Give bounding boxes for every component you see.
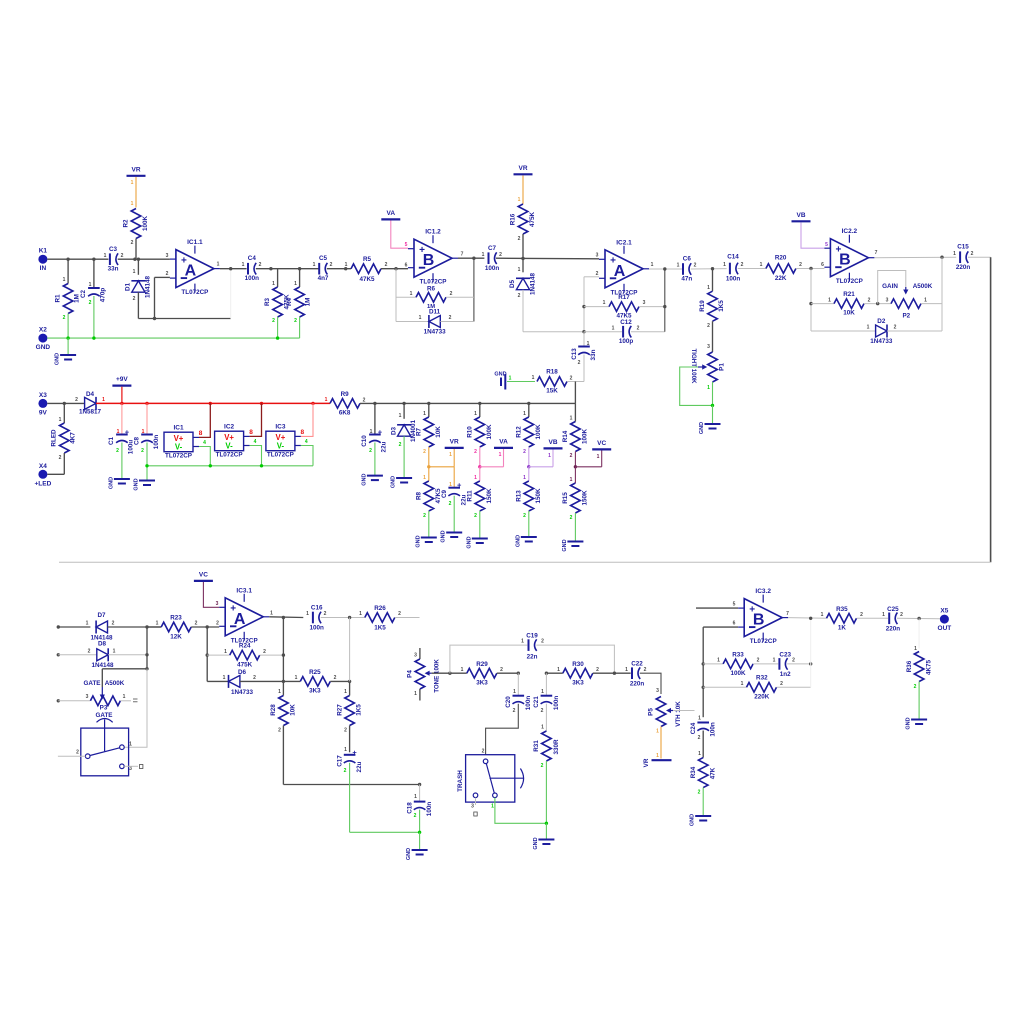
svg-text:1M: 1M: [305, 298, 312, 307]
svg-text:8: 8: [199, 430, 203, 437]
svg-text:1: 1: [474, 475, 477, 481]
svg-text:2: 2: [450, 291, 453, 297]
power block IC2: [215, 424, 257, 459]
svg-text:TONE 100K: TONE 100K: [434, 659, 441, 693]
wire rail to R18 corner: [574, 382, 576, 404]
capacitor C25 220n: [882, 606, 903, 633]
svg-text:1: 1: [491, 804, 494, 810]
svg-text:1: 1: [86, 621, 89, 627]
svg-text:2: 2: [780, 681, 783, 687]
node IC1 V+ drop: [209, 402, 212, 405]
svg-text:6: 6: [405, 263, 408, 269]
svg-text:C22: C22: [631, 661, 643, 668]
resistor R19 1K5: [699, 269, 725, 352]
wire P5 to VR: [660, 727, 662, 759]
svg-text:C18: C18: [407, 802, 414, 814]
svg-text:1K5: 1K5: [718, 300, 725, 312]
svg-text:1: 1: [513, 689, 516, 695]
resistor R17 47K5: [584, 294, 665, 320]
capacitor C12 100p: [584, 319, 665, 345]
svg-text:TL072CP: TL072CP: [216, 452, 243, 459]
svg-text:2: 2: [423, 449, 426, 455]
svg-text:100p: 100p: [619, 338, 634, 345]
wire C3 to opamp: [118, 258, 170, 260]
svg-text:C1: C1: [108, 436, 115, 445]
resistor R36 4K75: [906, 652, 933, 720]
svg-text:2: 2: [698, 790, 701, 796]
vertical C16 to R25: [349, 618, 351, 682]
svg-text:R34: R34: [690, 766, 697, 778]
svg-text:1: 1: [102, 397, 105, 403]
svg-text:220n: 220n: [886, 626, 901, 633]
node out IC2:1: [663, 267, 666, 270]
resistor R4 1M: [286, 269, 312, 338]
svg-text:GND: GND: [361, 473, 367, 485]
power block IC3: [266, 424, 308, 459]
svg-text:2: 2: [644, 667, 647, 673]
resistor R1: [55, 259, 81, 338]
svg-text:5: 5: [825, 242, 828, 248]
resistor R35 1K: [821, 606, 864, 632]
svg-text:V-: V-: [225, 442, 233, 451]
supply VR top-left: [127, 166, 146, 176]
wire IC2:2 out: [874, 256, 956, 259]
svg-text:1: 1: [131, 201, 134, 207]
svg-text:C3: C3: [109, 246, 118, 253]
node gnd R1: [66, 336, 69, 339]
op-amp IC1:1: [166, 239, 220, 296]
svg-text:3: 3: [643, 300, 646, 306]
svg-text:2: 2: [541, 639, 544, 645]
svg-text:2: 2: [894, 325, 897, 331]
svg-text:R15: R15: [562, 492, 569, 504]
svg-text:1: 1: [113, 649, 116, 655]
wire C20 to TRASH switch: [486, 704, 519, 755]
supply VR above R16: [514, 165, 533, 175]
svg-text:1: 1: [223, 675, 226, 681]
svg-text:R10: R10: [467, 426, 474, 438]
svg-text:TL072CP: TL072CP: [750, 638, 777, 645]
diode D1 1N4148: [125, 259, 152, 318]
node D8 right: [145, 653, 148, 656]
wire to P3: [58, 700, 90, 702]
supply VC divider: [592, 440, 611, 460]
svg-text:1: 1: [625, 667, 628, 673]
svg-text:1K5: 1K5: [356, 704, 363, 716]
svg-text:3: 3: [166, 253, 169, 259]
svg-text:R21: R21: [843, 291, 855, 298]
svg-text:A: A: [185, 263, 197, 280]
feedback right vertical IC2:1: [664, 269, 666, 332]
svg-text:V-: V-: [277, 442, 285, 451]
svg-text:R33: R33: [732, 651, 744, 658]
svg-text:3: 3: [86, 694, 89, 700]
svg-text:1: 1: [651, 262, 654, 268]
svg-text:GND: GND: [391, 476, 397, 488]
svg-text:2: 2: [499, 252, 502, 258]
node feedback junction: [153, 317, 156, 320]
ground symbol C9: [441, 530, 463, 542]
resistor R33 100K: [703, 651, 778, 677]
ground symbol R34: [690, 814, 712, 826]
svg-text:1: 1: [414, 691, 417, 697]
svg-text:A500K: A500K: [913, 283, 933, 290]
node IC3 V+ drop: [311, 402, 314, 405]
node green IC2: [260, 464, 263, 467]
resistor R13 150K: [516, 467, 543, 537]
svg-text:R30: R30: [572, 661, 584, 668]
connector X2 GND: [36, 327, 51, 352]
svg-text:P3: P3: [100, 705, 108, 712]
svg-text:GND: GND: [134, 478, 140, 490]
node R16/D5 junction: [521, 257, 524, 260]
svg-text:R9: R9: [341, 391, 350, 398]
svg-text:22K: 22K: [775, 275, 787, 282]
svg-text:2: 2: [474, 449, 477, 455]
wire VB to pin5: [801, 223, 828, 249]
svg-text:1: 1: [867, 325, 870, 331]
svg-text:3K3: 3K3: [476, 680, 488, 687]
capacitor C17 22u: [337, 747, 364, 832]
capacitor C19 22n bypass: [450, 633, 615, 674]
wire IC3 V- green: [301, 446, 313, 466]
node gnd C2: [92, 336, 95, 339]
node out IC3:2: [809, 617, 812, 620]
wire K1 to C3: [47, 258, 108, 260]
svg-text:R2: R2: [123, 219, 130, 228]
wire TRASH pin3 stub: [474, 798, 477, 816]
svg-text:2: 2: [131, 240, 134, 246]
svg-text:22n: 22n: [527, 654, 538, 661]
node C20 junction: [517, 672, 520, 675]
svg-text:1: 1: [156, 621, 159, 627]
node R33 left: [702, 662, 705, 665]
wire VR tap: [429, 449, 454, 467]
svg-text:1: 1: [707, 285, 710, 291]
svg-text:IC1: IC1: [173, 425, 184, 432]
svg-text:2: 2: [868, 298, 871, 304]
svg-text:1: 1: [821, 612, 824, 618]
svg-text:2: 2: [216, 621, 219, 627]
svg-text:2: 2: [694, 263, 697, 269]
svg-text:1: 1: [612, 326, 615, 332]
wire gate to switch: [124, 669, 147, 747]
svg-text:3: 3: [596, 253, 599, 259]
svg-text:10K: 10K: [843, 310, 855, 317]
capacitor C18 100n: [407, 785, 434, 833]
resistor R30 3K3: [546, 661, 614, 687]
svg-text:2: 2: [423, 513, 426, 519]
svg-text:1N4148: 1N4148: [91, 662, 114, 669]
wire switch pin2 stub: [58, 755, 86, 757]
node TONE junction: [448, 672, 451, 675]
svg-text:1: 1: [707, 385, 710, 391]
node +9V: [120, 402, 123, 405]
switch S2 TRASH box: [457, 749, 524, 810]
svg-text:VR: VR: [643, 758, 650, 767]
svg-text:4: 4: [305, 439, 308, 445]
svg-text:3K3: 3K3: [572, 680, 584, 687]
svg-text:1: 1: [89, 282, 92, 288]
svg-text:GND: GND: [906, 717, 912, 729]
svg-text:VC: VC: [597, 440, 606, 447]
svg-text:1: 1: [306, 611, 309, 617]
wire R36 faint drop: [914, 619, 919, 653]
wire D8 to node: [108, 654, 147, 656]
resistor R29 3K3: [450, 661, 518, 687]
svg-text:1: 1: [914, 646, 917, 652]
svg-text:2: 2: [294, 318, 297, 324]
svg-text:1: 1: [773, 658, 776, 664]
resistor R15 150K: [562, 467, 589, 541]
svg-text:8: 8: [300, 429, 304, 436]
svg-text:+: +: [125, 428, 130, 437]
svg-text:100n: 100n: [153, 435, 160, 450]
resistor R31 330R: [533, 725, 560, 824]
svg-text:VA: VA: [499, 438, 508, 445]
svg-text:X5: X5: [940, 608, 948, 615]
svg-text:2: 2: [399, 442, 402, 448]
diode D6 1N4733: [207, 669, 283, 696]
svg-text:V-: V-: [175, 443, 183, 452]
svg-text:1: 1: [717, 658, 720, 664]
svg-text:R1: R1: [55, 294, 62, 303]
ground symbol X2: [55, 338, 77, 365]
svg-text:1: 1: [698, 716, 701, 722]
svg-text:VA: VA: [387, 210, 396, 217]
wire IC2 V+ red: [250, 403, 262, 436]
svg-text:IN: IN: [40, 265, 47, 272]
svg-text:2: 2: [334, 675, 337, 681]
svg-text:R4: R4: [286, 297, 293, 306]
diode D3 1N4001: [391, 403, 418, 477]
node VA divider: [478, 465, 481, 468]
node R25 right: [348, 680, 351, 683]
node IC1:2 -in: [394, 267, 397, 270]
svg-text:TL072CP: TL072CP: [165, 453, 192, 460]
svg-text:2: 2: [792, 658, 795, 664]
svg-text:2: 2: [330, 262, 333, 268]
svg-text:475K: 475K: [529, 212, 536, 228]
svg-text:X3: X3: [39, 392, 47, 399]
connector X3 9V: [38, 392, 47, 417]
svg-text:1: 1: [557, 667, 560, 673]
capacitor C6 47n: [677, 256, 697, 283]
svg-text:1: 1: [723, 262, 726, 268]
node green IC1: [209, 464, 212, 467]
svg-text:2: 2: [133, 296, 136, 302]
svg-text:1: 1: [461, 667, 464, 673]
svg-text:1: 1: [509, 376, 512, 382]
svg-text:2: 2: [518, 293, 521, 299]
resistor R8 47K5: [416, 467, 443, 537]
svg-text:OUT: OUT: [938, 625, 952, 632]
svg-text:R7: R7: [416, 427, 423, 436]
svg-text:RLED: RLED: [51, 429, 58, 447]
svg-text:2: 2: [121, 253, 124, 259]
svg-text:4: 4: [203, 440, 206, 446]
svg-text:1: 1: [548, 453, 551, 459]
svg-text:1: 1: [518, 267, 521, 273]
wire C16 to R26: [321, 617, 365, 619]
svg-text:P2: P2: [902, 313, 910, 320]
supply VR bottom: [643, 753, 672, 767]
svg-text:100n: 100n: [485, 265, 500, 272]
svg-text:4K7: 4K7: [70, 432, 77, 444]
svg-text:1: 1: [313, 262, 316, 268]
svg-text:220n: 220n: [956, 264, 971, 271]
svg-text:1: 1: [345, 262, 348, 268]
svg-text:2: 2: [500, 667, 503, 673]
svg-text:R16: R16: [510, 213, 517, 225]
svg-text:1N4148: 1N4148: [145, 275, 152, 298]
svg-text:R8: R8: [416, 491, 423, 500]
svg-text:1: 1: [270, 611, 273, 617]
svg-text:C24: C24: [690, 722, 697, 734]
potentiometer P3 GATE A500K: [86, 694, 126, 719]
resistor R23 12K: [156, 615, 198, 641]
svg-text:C10: C10: [361, 435, 368, 447]
svg-text:R11: R11: [467, 490, 474, 502]
svg-text:100n: 100n: [726, 276, 741, 283]
wire P5 wiper stub: [673, 710, 695, 712]
svg-text:C23: C23: [779, 651, 791, 658]
ground symbol C8: [134, 478, 156, 490]
resistor R32 220K: [703, 675, 811, 701]
wire C6 to C14: [691, 268, 727, 270]
wire IC2:1 out: [649, 268, 682, 270]
wire VR to R16: [518, 176, 523, 205]
node C22 left: [613, 672, 616, 675]
svg-text:1: 1: [532, 375, 535, 381]
svg-text:IC3: IC3: [275, 424, 286, 431]
svg-text:R14: R14: [562, 430, 569, 442]
node stub D8 left: [57, 653, 60, 656]
svg-text:1: 1: [294, 281, 297, 287]
svg-text:R6: R6: [427, 286, 436, 293]
svg-text:D5: D5: [509, 279, 516, 288]
svg-text:C7: C7: [488, 245, 497, 252]
node before R5: [344, 267, 347, 270]
long wire to bottom-left: [59, 561, 991, 563]
wire P2 wiper: [878, 271, 906, 304]
op-amp IC1:2: [405, 229, 464, 286]
wire IC3 V+ red: [301, 403, 313, 436]
svg-text:47K: 47K: [710, 767, 717, 779]
svg-text:2: 2: [195, 621, 198, 627]
wire P3 right stub: [120, 699, 137, 702]
svg-text:IC3.2: IC3.2: [755, 588, 771, 595]
svg-text:1: 1: [63, 277, 66, 283]
capacitor C24 100n: [690, 716, 717, 758]
svg-text:475K: 475K: [237, 662, 253, 669]
svg-text:VB: VB: [548, 439, 557, 446]
svg-text:2: 2: [414, 813, 417, 819]
+9V rail red: [96, 402, 330, 404]
capacitor C13 33n: [571, 332, 597, 382]
svg-text:2: 2: [166, 271, 169, 277]
svg-text:100n: 100n: [710, 722, 717, 737]
wire C15 to bottom section: [968, 257, 991, 562]
svg-text:1: 1: [587, 341, 590, 347]
op-amp IC3:2: [738, 588, 789, 645]
node R7: [427, 402, 430, 405]
svg-text:R25: R25: [309, 669, 321, 676]
svg-text:10K: 10K: [435, 426, 442, 438]
svg-text:8: 8: [249, 429, 253, 436]
wire P1 wiper to gnd: [680, 367, 713, 405]
node VB divider: [527, 465, 530, 468]
ground symbol R18: [494, 372, 535, 390]
svg-text:100K: 100K: [535, 424, 542, 440]
wire IC2 V- green: [250, 446, 262, 466]
connector K1 IN: [38, 248, 47, 273]
green bus power row: [147, 465, 313, 467]
svg-text:K1: K1: [39, 248, 48, 255]
wire IC1 V- green: [199, 447, 210, 466]
wire P4 wiper to R29: [432, 672, 450, 674]
feedback vertical IC3:2 faint: [810, 618, 812, 687]
supply VB: [792, 212, 811, 222]
svg-text:3: 3: [129, 766, 132, 772]
svg-text:VR: VR: [450, 438, 459, 445]
svg-text:100n: 100n: [426, 802, 433, 817]
svg-text:100K: 100K: [582, 429, 589, 445]
ground symbol C1: [108, 477, 129, 489]
supply VA: [381, 210, 400, 220]
svg-text:47K5: 47K5: [359, 276, 375, 283]
svg-text:1: 1: [518, 197, 521, 203]
svg-text:2: 2: [449, 315, 452, 321]
op-amp IC3:1: [216, 587, 273, 644]
node gnd C18: [418, 831, 421, 834]
node IC3:1 -in: [206, 625, 209, 628]
node D3: [402, 402, 405, 405]
svg-text:1: 1: [499, 452, 502, 458]
svg-text:1K: 1K: [838, 625, 847, 632]
svg-text:2: 2: [513, 708, 516, 714]
svg-text:2: 2: [518, 236, 521, 242]
svg-text:R5: R5: [363, 256, 372, 263]
svg-text:1: 1: [423, 475, 426, 481]
svg-text:R28: R28: [270, 704, 277, 716]
svg-text:2: 2: [59, 455, 62, 461]
svg-text:1: 1: [344, 747, 347, 753]
svg-text:2: 2: [596, 271, 599, 277]
svg-text:2: 2: [757, 658, 760, 664]
svg-text:1: 1: [523, 475, 526, 481]
svg-text:2: 2: [596, 667, 599, 673]
wire IC1:1 feedback bottom: [138, 318, 230, 320]
feedback right vertical IC1:2: [473, 258, 475, 321]
svg-text:1: 1: [325, 397, 328, 403]
svg-text:2: 2: [578, 360, 581, 366]
svg-text:22u: 22u: [356, 761, 363, 772]
diode D11 1N4733: [396, 309, 474, 336]
svg-text:VC: VC: [199, 571, 208, 578]
svg-text:2: 2: [363, 397, 366, 403]
svg-text:2: 2: [398, 611, 401, 617]
node D7 right: [145, 625, 148, 628]
node IC2:2 -in: [809, 267, 812, 270]
svg-text:5: 5: [733, 602, 736, 608]
wire wiper to P3: [102, 669, 147, 687]
svg-text:1N4148: 1N4148: [530, 272, 537, 295]
svg-text:2: 2: [259, 262, 262, 268]
wire X3 to D4: [47, 402, 84, 404]
diode D5 1N4148: [509, 259, 537, 332]
wire VB tap: [529, 450, 553, 467]
